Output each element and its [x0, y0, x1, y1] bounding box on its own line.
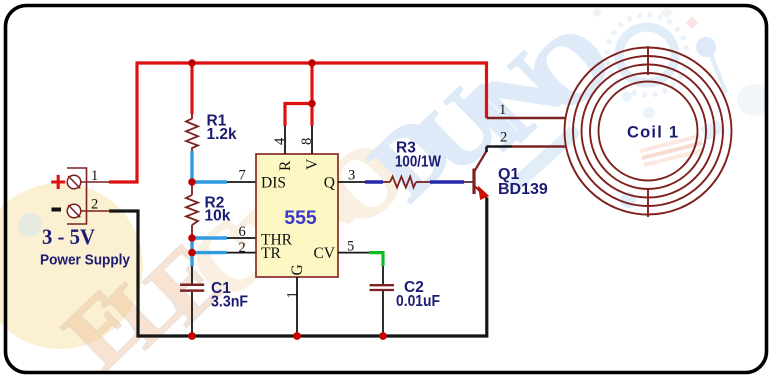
watermark cream disc: [0, 183, 143, 349]
wire: black lead to C2: [382, 266, 384, 284]
junction dot C1 at ground rail: [188, 332, 196, 340]
label Q1 BD139: [498, 166, 548, 198]
wire: +V red rail from terminal 1 up and across to right side: [109, 63, 487, 182]
power connector J1 bracket: [67, 168, 87, 224]
svg-text:2: 2: [500, 130, 507, 146]
watermark logo gear behind coil: [18, 6, 769, 237]
svg-text:V: V: [304, 158, 321, 170]
svg-text:1.2k: 1.2k: [207, 126, 238, 143]
transistor Q1: [474, 151, 488, 199]
wire: TR pin 2 black stub: [227, 252, 257, 254]
label R3 value: [395, 140, 441, 171]
resistor R2: [191, 182, 193, 238]
wire: coil lead 2: [487, 145, 513, 148]
junction dot TR node: [188, 249, 196, 257]
svg-text:3: 3: [348, 168, 355, 184]
coil crossover tick top: [647, 46, 649, 75]
svg-text:CV: CV: [313, 245, 335, 262]
svg-text:2: 2: [91, 197, 98, 213]
svg-text:10k: 10k: [205, 208, 231, 225]
junction dot C2 at rail: [379, 332, 387, 340]
wire: blue from TR node down toward C1: [190, 253, 193, 266]
svg-text:BD139: BD139: [498, 181, 548, 198]
wire: DIS pin 7 black stub: [227, 181, 256, 183]
wire: red branch from rail down to pins 4 and 8: [285, 63, 312, 126]
svg-text:2: 2: [239, 240, 246, 256]
wire: pin 4 black stub: [284, 126, 286, 154]
op-amp style body: 555 timer U1: [256, 154, 338, 277]
wire: black lead to C1 top plate: [191, 266, 193, 284]
svg-text:8: 8: [299, 138, 315, 145]
wire: blue segment R3 to Q1 base: [430, 180, 464, 183]
inductor Coil 1 rings: [565, 46, 732, 217]
svg-text:100/1W: 100/1W: [395, 154, 441, 171]
resistor R3: [390, 177, 416, 188]
svg-text:1: 1: [499, 102, 506, 118]
wire: terminal 2 thin lead: [81, 210, 110, 212]
svg-text:R: R: [277, 160, 294, 171]
wire: maroon lead into R3: [383, 181, 390, 183]
svg-text:1: 1: [285, 291, 301, 298]
junction dot at pins-4/8 branch: [308, 100, 316, 108]
label R2 value: [205, 195, 231, 225]
svg-text:0.01uF: 0.01uF: [396, 293, 440, 310]
svg-text:5: 5: [347, 239, 354, 255]
wire: black from C1 to ground rail: [191, 292, 193, 336]
label C2 value: [396, 279, 440, 310]
svg-text:Q: Q: [324, 175, 335, 192]
watermark ELECTRODUINO text: [34, 0, 638, 380]
wire: terminal 1 thin lead: [81, 181, 110, 183]
wire: blue link THR to TR: [190, 238, 193, 253]
ground rail black wire from terminal 2 across the bottom and up to emitter: [109, 198, 487, 337]
coil crossover tick bottom: [647, 188, 649, 217]
wire: pin 8 black stub: [311, 126, 313, 154]
svg-text:1: 1: [91, 168, 98, 184]
svg-text:3.3nF: 3.3nF: [211, 294, 248, 311]
svg-text:7: 7: [239, 168, 246, 184]
label R1 value: [207, 113, 238, 144]
terminal screw 1: [67, 175, 81, 189]
wire: black from C2 to ground rail: [382, 291, 384, 336]
svg-text:Power Supply: Power Supply: [40, 253, 131, 269]
wire: THR pin 6 black stub: [227, 237, 256, 239]
junction dot THR node: [188, 234, 196, 242]
wire: THR pin 6 blue segment: [192, 236, 227, 239]
junction dot at rail x=192: [188, 59, 196, 67]
resistor R1: [186, 114, 198, 151]
wire: blue segment pin3 to R3: [365, 180, 383, 183]
svg-text:4: 4: [272, 137, 288, 145]
wire: TR pin 2 blue segment: [192, 251, 227, 254]
wire: maroon lead out of R3: [416, 181, 430, 183]
wire: CV pin 5 black stub: [338, 252, 369, 254]
terminal screw 2: [67, 204, 81, 218]
svg-text:Coil 1: Coil 1: [627, 124, 678, 142]
junction dot 555 ground pin at rail: [293, 332, 301, 340]
wire: red drop from rail to R1: [190, 63, 193, 114]
svg-text:6: 6: [239, 224, 246, 240]
wire: DIS pin 7 blue segment: [192, 180, 227, 183]
wire: green segment CV to C2: [369, 253, 383, 266]
svg-text:555: 555: [284, 207, 317, 229]
capacitor C2: [370, 285, 395, 290]
svg-text:TR: TR: [261, 245, 281, 262]
wire: 555 ground pin 1 black stub: [296, 277, 298, 336]
wire: coil lead 1 maroon: [487, 117, 567, 119]
junction dot DIS node: [188, 178, 196, 186]
svg-text:DIS: DIS: [261, 175, 286, 192]
wire: Q output pin 3 black stub: [338, 181, 365, 183]
svg-text:G: G: [289, 264, 306, 275]
svg-text:3 - 5V: 3 - 5V: [42, 224, 95, 249]
wire: blue from R1 to DIS node: [190, 151, 193, 182]
capacitor C1: [180, 285, 204, 291]
junction dot at rail x=312: [308, 59, 316, 67]
wire: collector up black: [485, 147, 488, 153]
svg-text:+: +: [50, 166, 66, 197]
label C1 value: [211, 280, 248, 311]
minus symbol: [52, 208, 62, 212]
wire: thin lead into Q1 base: [464, 181, 473, 183]
